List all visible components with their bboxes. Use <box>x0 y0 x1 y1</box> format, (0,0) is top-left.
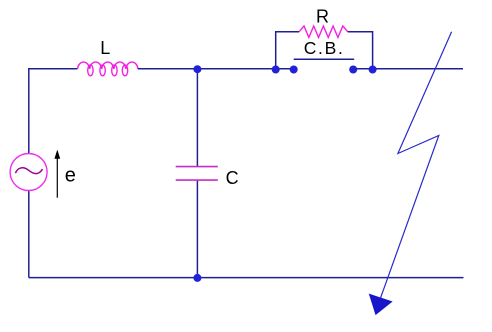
node: junction at capacitor top <box>193 65 201 73</box>
wire: breaker bypass right riser <box>348 32 373 70</box>
svg-text:C.B.: C.B. <box>304 38 345 58</box>
svg-text:e: e <box>65 165 76 187</box>
wire: breaker bypass left riser <box>276 32 300 70</box>
node: junction at capacitor bottom <box>193 274 201 282</box>
AC source sine wave <box>16 168 43 174</box>
wire: top horizontal, inductor to breaker left contact <box>138 68 294 70</box>
arrow for e (polarity arrow) <box>56 158 58 198</box>
wire: top horizontal, source corner to inductor <box>29 69 78 154</box>
resistor R <box>299 26 347 37</box>
wire: bottom horizontal <box>29 277 464 279</box>
AC source e <box>10 154 47 191</box>
svg-text:C: C <box>226 168 239 188</box>
node: bypass right junction <box>369 66 377 74</box>
circuit breaker bar <box>294 58 355 60</box>
wire: top horizontal, breaker right contact to right end <box>353 68 463 70</box>
node: breaker left contact <box>290 66 298 74</box>
fault lightning bolt <box>381 32 452 298</box>
capacitor C <box>176 167 218 181</box>
inductor L <box>78 62 139 76</box>
wire: middle vertical below capacitor <box>196 180 198 278</box>
fault arrowhead <box>370 294 392 314</box>
node: bypass left junction <box>272 66 280 74</box>
node: breaker right contact <box>349 66 357 74</box>
wire: middle vertical above capacitor <box>196 69 198 167</box>
wire: left vertical below source <box>28 191 30 278</box>
svg-text:R: R <box>316 7 329 27</box>
svg-text:L: L <box>100 38 110 58</box>
